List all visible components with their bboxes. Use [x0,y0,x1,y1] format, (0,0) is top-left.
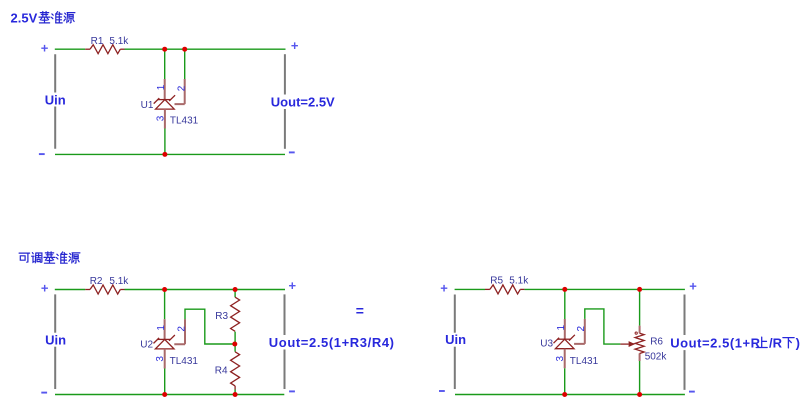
svg-text:U3: U3 [540,338,553,349]
svg-text:+: + [41,281,49,296]
battery line right [684,295,686,390]
svg-text:3: 3 [155,356,166,362]
svg-text:U1: U1 [141,100,154,111]
resistor R5 5.1k [485,288,490,290]
svg-text:+: + [291,38,299,53]
op U1 TL431 symbol [157,99,170,101]
svg-text:1: 1 [156,84,167,90]
svg-text:+: + [440,281,448,296]
svg-text:2: 2 [176,326,187,332]
svg-text:R1: R1 [91,36,104,47]
wire: R4 branch [234,344,236,395]
svg-text:3: 3 [155,115,166,121]
pin 3 [164,109,166,128]
resistor R1 5.1k [85,48,90,50]
wire: top rail [455,288,685,290]
pin 2 [174,319,185,344]
svg-text:R6: R6 [650,336,663,347]
svg-text:Uout=2.5(1+R: Uout=2.5(1+R [670,335,760,350]
Uin label [43,93,67,107]
svg-text:+: + [689,278,697,293]
junction dots [162,47,167,52]
wire: pin1 drop [564,289,566,319]
title: 可调基准源 [19,253,30,262]
svg-text:Uin: Uin [45,92,66,107]
wire: pin2 drop [184,49,186,79]
wire: R6 branch [639,289,641,394]
svg-text:R2: R2 [90,276,103,287]
battery line right [284,54,286,95]
svg-text:Uin: Uin [45,332,66,347]
battery line left [54,294,56,389]
wire: bottom rail [455,394,685,396]
wire: top rail [55,289,285,291]
svg-text:Uin: Uin [445,332,466,347]
svg-text:=: = [356,302,364,318]
wire: bottom rail [55,394,284,396]
op U3 TL431 symbol [557,338,570,340]
Uout label [268,335,395,350]
svg-text:Uout=2.5V: Uout=2.5V [271,95,335,110]
wire: top rail [55,48,286,50]
wire: pin1 drop [164,49,166,79]
pin 3 [564,349,566,369]
Uin label [443,333,468,347]
Uin label [43,333,68,347]
potentiometer R6 502k [639,326,641,361]
svg-text:502k: 502k [645,351,668,362]
svg-text:+: + [41,41,49,56]
svg-text:5.1k: 5.1k [109,36,129,47]
svg-text:2: 2 [576,325,587,331]
resistor R3 [231,297,240,331]
Uout label [269,95,337,110]
Uout label [669,336,802,351]
battery line left [454,295,456,390]
svg-text:5.1k: 5.1k [109,276,129,287]
pin 3 [164,349,166,369]
pin 2 [175,79,185,104]
svg-text:U2: U2 [140,339,153,350]
svg-text:+: + [289,278,297,293]
svg-text:2.5V: 2.5V [11,10,38,25]
svg-text:R4: R4 [215,365,228,376]
svg-text:1: 1 [156,325,167,331]
pin 2 [574,319,585,344]
wire: pin3 to rail [164,129,166,155]
svg-text:): ) [796,335,800,350]
junction dots [162,287,167,292]
svg-text:3: 3 [555,355,566,361]
svg-text:2: 2 [176,85,187,91]
pin 1 [564,319,566,339]
svg-text:Uout=2.5(1+R3/R4): Uout=2.5(1+R3/R4) [269,335,395,350]
pin 1 [164,319,166,339]
svg-text:R3: R3 [215,311,228,322]
svg-text:TL431: TL431 [170,356,199,367]
wire: pin3 to rail [564,368,566,394]
wire: pin1 drop [164,290,166,320]
svg-text:1: 1 [556,324,567,330]
junction dots [562,287,567,292]
svg-text:5.1k: 5.1k [509,275,529,286]
resistor R2 5.1k [85,289,90,291]
svg-text:R5: R5 [490,275,503,286]
wire: bottom rail [55,153,285,155]
svg-text:TL431: TL431 [170,116,199,127]
resistor R4 [231,352,240,386]
wire: pin2 loop to wiper [585,309,621,344]
wire: pin2 loop to divider tap [185,309,233,344]
wiper arrow [620,343,628,345]
pin 1 [164,79,166,100]
wire: pin3 to rail [164,369,166,395]
op U2 TL431 symbol [157,338,170,340]
battery line right [284,294,286,389]
wire: R3 branch [234,290,236,345]
battery line left [54,54,56,149]
svg-text:TL431: TL431 [570,356,599,367]
svg-text:/R: /R [769,335,783,350]
